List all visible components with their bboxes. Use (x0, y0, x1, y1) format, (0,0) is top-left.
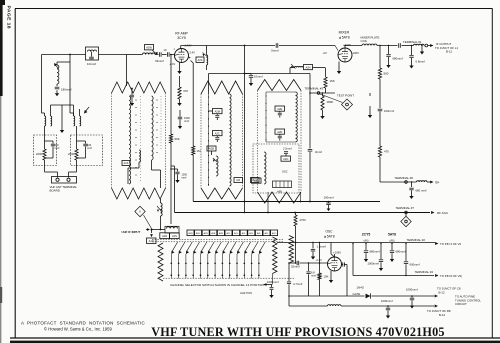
right antenna leg down to transformer (69, 62, 71, 113)
osc slug (273, 181, 292, 188)
osc feedback capacitor (342, 262, 344, 266)
AFT gate wire (289, 295, 365, 297)
svg-text:2.2mmf: 2.2mmf (283, 147, 292, 151)
svg-text:680mmf: 680mmf (396, 250, 406, 254)
svg-text:2CY5: 2CY5 (362, 233, 371, 237)
wires to terminal board (44, 166, 46, 173)
wire from L1 right toward wafer L (99, 54, 127, 56)
stator column 2 (178, 254, 180, 279)
switch section label A2L (233, 230, 240, 236)
wire from L1 left to antenna column (42, 54, 86, 56)
svg-text:1M: 1M (197, 149, 202, 153)
svg-text:560: 560 (384, 72, 389, 76)
stator column 10 (236, 254, 238, 279)
svg-text:TO PIN 3 OF V2: TO PIN 3 OF V2 (440, 242, 462, 246)
svg-text:100mmf: 100mmf (384, 109, 394, 113)
wafer M inner frame and coil (208, 94, 210, 186)
resistor 560 (378, 68, 381, 79)
blade contact 5 (201, 242, 207, 251)
heater dropping capacitor 600mmf (405, 244, 407, 262)
svg-text:4.7mmf: 4.7mmf (293, 282, 303, 286)
resistor 56K (169, 134, 172, 143)
switch section label A2B (202, 230, 209, 236)
osc coil (264, 152, 266, 184)
trimmer label box A1W with adjust arrow (145, 45, 154, 50)
svg-text:COIL: COIL (361, 39, 368, 43)
svg-text:-2V: -2V (323, 51, 327, 55)
resistor 220K (left) (44, 126, 46, 149)
trimmer A2G (281, 156, 291, 161)
trimmer A2C (213, 131, 223, 136)
svg-text:15K: 15K (330, 79, 335, 83)
stator column 8 (221, 254, 223, 279)
svg-text:A2B: A2B (209, 147, 214, 151)
blade contact 3 (187, 242, 193, 251)
svg-text:CIRCUIT: CIRCUIT (455, 302, 467, 306)
svg-text:OSC: OSC (282, 170, 288, 174)
coil L1 in shield box with 10mmf label (86, 47, 99, 60)
center-tap ground arrow (61, 105, 63, 127)
stator column 6 (207, 254, 209, 279)
svg-text:100mmf: 100mmf (324, 195, 334, 199)
capacitor 1000mmf on AGC return (170, 168, 172, 170)
capacitor to ground inside wafer L (131, 88, 133, 90)
resistor 470 (378, 146, 381, 157)
wafer box L dashed sides (111, 93, 113, 188)
switch section label A1U (195, 230, 202, 236)
svg-text:6.8mmf: 6.8mmf (416, 60, 426, 64)
svg-text:10mmf: 10mmf (87, 62, 96, 66)
capacitor 6.8mmf to ground (411, 46, 413, 56)
long bus wire (upper) (193, 201, 380, 203)
svg-text:56K: 56K (175, 137, 180, 141)
svg-text:A2H: A2H (305, 65, 310, 69)
resistor 2700 from AGC bus down (295, 213, 297, 216)
svg-text:A2B: A2B (219, 232, 224, 235)
capacitor 3mmf in bus (308, 149, 313, 151)
capacitor 6.8mmf (308, 263, 310, 271)
stator column 9 (229, 254, 231, 279)
svg-text:A2B: A2B (188, 232, 193, 235)
selector frame right zigzag (289, 236, 294, 264)
capacitor 10mmf series (167, 52, 169, 56)
blade contact 10 (238, 242, 244, 251)
wafer R inner frame and coil (265, 92, 267, 142)
svg-text:mmf: mmf (87, 147, 92, 150)
switch section label A2O (271, 230, 278, 236)
svg-text:+105V: +105V (333, 251, 341, 255)
blade contact 2 (179, 242, 185, 251)
svg-text:2700: 2700 (300, 218, 307, 222)
RF amp plate to A2A trimmer and coil (188, 56, 190, 59)
UHF input coupling coil (adjustable) (160, 199, 162, 203)
junction to A1Q (151, 229, 153, 231)
svg-text:A1S: A1S (172, 234, 177, 238)
svg-text:GATE: GATE (353, 292, 361, 296)
wafer R bottom stubs to bus (267, 192, 269, 213)
wafer box R sawtooth bottom (258, 192, 302, 203)
svg-text:© Howard W. Sams & Co., Inc. 1: © Howard W. Sams & Co., Inc. 1959 (44, 327, 112, 332)
heater bypass 680mmf (2CY5) (365, 244, 367, 251)
svg-text:A2M: A2M (215, 109, 220, 113)
long bus wire (lower) to RF AGC (175, 212, 431, 214)
cathode return bus with 1M resistor (191, 61, 194, 64)
capacitor 10mmf to ground between wafers M and R (244, 74, 246, 75)
svg-text:TEST POINT: TEST POINT (337, 94, 354, 98)
selector inner zigzag divider (273, 237, 278, 274)
trimmer A2E (275, 106, 285, 111)
blade contact 6 (209, 242, 215, 251)
svg-text:5AT8: 5AT8 (388, 233, 396, 237)
svg-text:RF AGC: RF AGC (437, 211, 449, 215)
IF takeoff bus down right side (379, 46, 381, 69)
branch to lower AGC bus (171, 165, 175, 167)
resistor 180K to ground (322, 93, 324, 96)
svg-text:-2.4V: -2.4V (316, 258, 322, 262)
svg-text:25mmf: 25mmf (291, 264, 300, 268)
svg-text:▲5AT8: ▲5AT8 (338, 36, 349, 40)
svg-text:A2B: A2B (211, 232, 216, 235)
resistor 15K (325, 68, 327, 77)
mixer injection coil with trimmer A2H (295, 66, 304, 67)
capacitor .5mmf series (275, 43, 277, 48)
heater block left leg (352, 244, 354, 276)
stator column 11 (243, 254, 245, 279)
svg-text:A2E: A2E (277, 107, 282, 111)
wafer box R sawtooth top (258, 80, 302, 91)
dashed box: antenna isolation network (right) (71, 135, 103, 166)
svg-text:TO PIN 8 OF V2): TO PIN 8 OF V2) (440, 274, 462, 278)
svg-text:TERMINAL #6: TERMINAL #6 (395, 176, 414, 180)
antenna coil to RF amp (143, 53, 156, 55)
svg-text:680mmf: 680mmf (370, 250, 380, 254)
svg-text:(A6): (A6) (363, 239, 368, 243)
svg-text:A2O: A2O (272, 232, 277, 235)
svg-text:33mmf: 33mmf (155, 59, 164, 63)
stator column 1 (170, 254, 172, 279)
wafer box L (RF coil strip) sawtooth top (112, 82, 166, 93)
svg-text:TERMINAL #3: TERMINAL #3 (305, 87, 324, 91)
svg-text:A2B: A2B (204, 232, 209, 235)
svg-text:180K: 180K (327, 100, 334, 104)
RF amp cathode ground (179, 62, 181, 68)
AGC return bus from grid circuit (170, 54, 172, 56)
heater bypass 1000mmf (380, 244, 382, 260)
svg-text:TERMINAL #1: TERMINAL #1 (403, 40, 422, 44)
svg-text:.5mmf: .5mmf (271, 49, 279, 53)
svg-text:BOARD: BOARD (50, 189, 60, 193)
trimmer A2B with coil (207, 146, 216, 151)
tie wire above wafers (209, 73, 311, 75)
svg-text:47K: 47K (183, 89, 188, 93)
blade contact 4 (194, 242, 200, 251)
heater bypass 680mmf (5AT8) (391, 244, 393, 251)
svg-text:1N4G: 1N4G (357, 286, 365, 290)
ground stub right of mixer (369, 93, 371, 96)
svg-text:A1K: A1K (124, 161, 129, 165)
blade contact 1 (172, 242, 178, 251)
svg-text:10mmf: 10mmf (254, 75, 263, 79)
blade contact 13 (260, 242, 266, 251)
capacitor 4.7mmf (288, 263, 290, 281)
svg-text:1.5mmf: 1.5mmf (317, 245, 327, 249)
trimmer A2D (275, 129, 285, 134)
svg-text:-2.4V: -2.4V (169, 62, 175, 66)
test point diamond V (135, 206, 145, 216)
svg-text:B-12: B-12 (446, 50, 452, 54)
svg-text:A PHOTOFACT STANDARD NOTATI: A PHOTOFACT STANDARD NOTATION SCHEMATIC (21, 321, 146, 326)
svg-text:A2G: A2G (283, 157, 288, 161)
trimmer boxes A1R A1S (160, 233, 170, 239)
capacitor 680mmf series (398, 43, 400, 48)
svg-text:mmf: mmf (55, 147, 60, 150)
top coupling wire (181, 45, 275, 47)
svg-text:1000mmf: 1000mmf (267, 280, 279, 284)
wafer box L interior coils and contact dots (129, 96, 131, 184)
svg-text:3mmf: 3mmf (315, 150, 322, 154)
svg-text:470: 470 (384, 150, 389, 154)
switch section label A2L (263, 230, 270, 236)
selector dashed tie rows (152, 238, 283, 240)
svg-text:RF AMP: RF AMP (175, 32, 188, 36)
capacitor 180mmf to ground (56, 84, 58, 86)
blade contact 8 (223, 242, 229, 251)
svg-text:220K: 220K (36, 152, 43, 156)
svg-text:CHANNEL SELECTOR SWITCH SHOWN: CHANNEL SELECTOR SWITCH SHOWN IN CHANNEL… (170, 283, 264, 287)
AFT lower wire with coil (289, 305, 328, 307)
blade contact 11 (245, 242, 251, 251)
svg-text:TERMINAL #4: TERMINAL #4 (415, 270, 434, 274)
svg-text:PAGE 18: PAGE 18 (6, 6, 12, 29)
svg-text:(A6): (A6) (389, 239, 394, 243)
svg-text:A2C: A2C (215, 131, 220, 135)
selector box bottom dashed edge (163, 277, 294, 279)
svg-text:A1Q: A1Q (149, 239, 154, 243)
schematic border frame (15, 8, 493, 10)
svg-text:mmf: mmf (182, 176, 187, 179)
svg-text:MIXER: MIXER (339, 31, 350, 35)
svg-text:▲5AT8: ▲5AT8 (323, 235, 334, 239)
wafer box M sawtooth top (201, 81, 243, 94)
capacitor 680mmf at terminal 6 (411, 182, 413, 187)
blade contact 12 (252, 242, 258, 251)
osc grid wire with 25mmf (289, 262, 296, 264)
IF OUTPUT arrow and text (430, 44, 433, 47)
resistor 47K to ground (179, 76, 181, 87)
resistor 220K (right) (76, 126, 78, 149)
left page-edge black bar (0, 0, 3, 96)
svg-text:TERMINAL #7: TERMINAL #7 (396, 206, 415, 210)
svg-text:mmf: mmf (311, 273, 316, 277)
svg-text:1000mmf: 1000mmf (406, 288, 418, 292)
switch section label A2B (210, 230, 217, 236)
svg-text:UHF POS: UHF POS (240, 291, 252, 295)
capacitor 33mmf (155, 54, 159, 56)
svg-text:VHF TUNER WITH UHF PROVISIONS: VHF TUNER WITH UHF PROVISIONS 470V021H05 (151, 325, 444, 339)
switch section label A2B (217, 230, 224, 236)
svg-text:A2I: A2I (236, 178, 240, 182)
mixer cathode ground (338, 62, 340, 69)
svg-text:UHF IF INPUT: UHF IF INPUT (122, 230, 141, 234)
switch section label A2L (248, 230, 255, 236)
fine tuning link: 1000mmf to selector (264, 283, 267, 286)
capacitor 1500mmf (179, 110, 181, 117)
antenna matching coil (69, 55, 71, 63)
adjustment arrow at T1 (85, 107, 90, 113)
capacitor 5.6mmf to ground (388, 46, 390, 55)
osc plate to B+ wire (334, 254, 336, 257)
stator column 12 (251, 254, 253, 279)
switch section label A2L (240, 230, 247, 236)
wafer box R dashed sides (257, 91, 259, 193)
A2F label box (252, 178, 262, 183)
balun transformer T1 (45, 116, 46, 126)
switch section label A2B (187, 230, 194, 236)
B+ feed coil (417, 181, 428, 182)
ground at terminal 1 (421, 46, 423, 49)
label boxes A2I / A2J below wafer M (234, 178, 243, 183)
svg-text:A6B: A6B (277, 190, 282, 194)
svg-text:680 mmf: 680 mmf (416, 189, 427, 193)
switch section label A2L (255, 230, 262, 236)
svg-text:220K: 220K (68, 152, 75, 156)
svg-text:B-12: B-12 (439, 290, 445, 294)
capacitor 1000mmf (left) (45, 140, 54, 142)
svg-text:TERMINAL #2: TERMINAL #2 (407, 238, 426, 242)
svg-text:OSC: OSC (326, 230, 334, 234)
resistor 10K (319, 243, 321, 274)
wafer L bottom parts: coupling coil and A1K box (139, 150, 141, 162)
capacitor 1.5mmf at osc plate (312, 243, 314, 249)
capacitor 1000mmf (right) (77, 140, 86, 142)
stator column 7 (214, 254, 216, 279)
svg-text:A1U: A1U (196, 232, 201, 235)
svg-text:680mmf: 680mmf (393, 57, 403, 61)
svg-text:A1W: A1W (146, 46, 152, 50)
vertical bus between M and R (244, 46, 246, 213)
trimmer A2M (213, 109, 223, 114)
svg-text:A2D: A2D (277, 130, 282, 134)
wafer box M sawtooth bottom (201, 188, 243, 199)
stator column 5 (200, 254, 202, 279)
dashed box: antenna isolation network (left) (34, 135, 57, 166)
svg-text:3CY5: 3CY5 (177, 36, 186, 40)
selector frame left zigzag (158, 243, 163, 281)
blade contact 7 (216, 242, 222, 251)
VHF antenna terminal board (52, 177, 77, 184)
wire antenna column down (41, 55, 43, 114)
svg-text:V: V (139, 210, 141, 214)
stator column 13 (258, 254, 260, 279)
svg-text:2.4V: 2.4V (190, 51, 196, 55)
osc cathode ground (330, 271, 332, 277)
bottom rule and heavy page-bottom bar (10, 337, 500, 339)
test point diamond T at terminal 7 (405, 214, 407, 217)
blade contact 9 (231, 242, 237, 251)
svg-text:B+: B+ (436, 181, 440, 185)
capacitor 100mmf (378, 108, 383, 110)
oscillator sub box (dashed) (253, 144, 299, 193)
svg-text:600mmf: 600mmf (410, 263, 420, 267)
wafer box L sawtooth bottom (112, 188, 166, 199)
svg-text:A1R: A1R (162, 234, 167, 238)
svg-text:A2A: A2A (198, 58, 203, 62)
svg-text:A2F: A2F (254, 179, 259, 183)
svg-text:1000mmf: 1000mmf (381, 299, 393, 303)
switch section label A2L (225, 230, 232, 236)
stator column 4 (192, 254, 194, 279)
vertical bus from terminal 3 down (309, 74, 311, 149)
wire to TERMINAL 6 (380, 181, 417, 183)
svg-text:mmf: mmf (184, 119, 189, 123)
wafer box M dashed sides (200, 94, 202, 188)
svg-text:10K: 10K (324, 275, 329, 279)
link coil in box (165, 226, 179, 233)
svg-text:130V: 130V (353, 51, 360, 55)
stator column 3 (185, 254, 187, 279)
svg-text:B-12: B-12 (439, 313, 445, 317)
svg-text:1000mmf: 1000mmf (367, 262, 379, 266)
